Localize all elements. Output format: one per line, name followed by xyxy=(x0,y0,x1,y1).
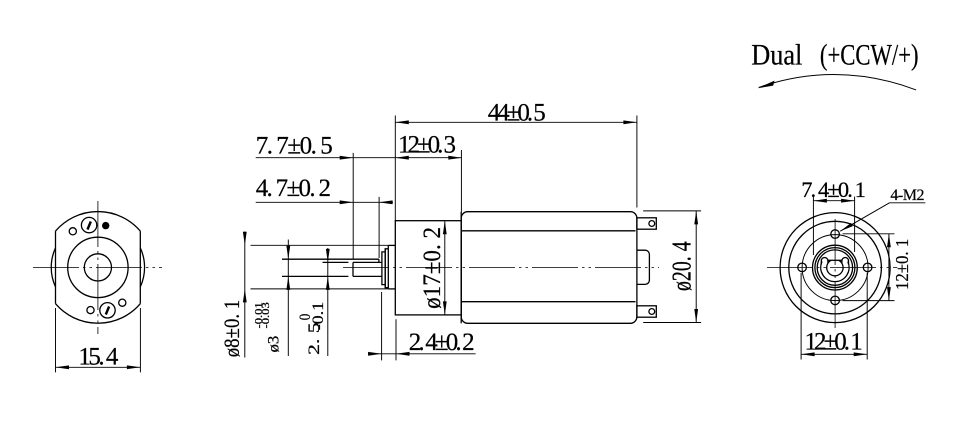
svg-text:44±0. 5: 44±0. 5 xyxy=(488,99,546,126)
svg-text:ø17±0. 2: ø17±0. 2 xyxy=(419,227,446,309)
svg-text:12±0. 1: 12±0. 1 xyxy=(805,329,863,356)
svg-text:ø3: ø3 xyxy=(265,336,282,353)
svg-text:4-M2: 4-M2 xyxy=(890,187,924,204)
svg-text:12±0. 1: 12±0. 1 xyxy=(892,239,912,290)
svg-text:-0.1: -0.1 xyxy=(310,302,327,330)
svg-text:Dual: Dual xyxy=(751,39,802,72)
svg-text:-0.03: -0.03 xyxy=(261,302,272,328)
svg-text:ø8±0. 1: ø8±0. 1 xyxy=(219,300,244,358)
svg-text:12±0. 3: 12±0. 3 xyxy=(398,132,456,159)
svg-text:7. 7±0. 5: 7. 7±0. 5 xyxy=(256,132,333,159)
svg-text:ø20. 4: ø20. 4 xyxy=(667,241,697,291)
svg-text:4. 7±0. 2: 4. 7±0. 2 xyxy=(256,175,331,202)
svg-text:7. 4±0. 1: 7. 4±0. 1 xyxy=(801,177,866,202)
svg-text:15. 4: 15. 4 xyxy=(78,343,119,370)
svg-text:(+CCW/+): (+CCW/+) xyxy=(820,39,919,72)
svg-text:2. 4±0. 2: 2. 4±0. 2 xyxy=(409,329,475,356)
